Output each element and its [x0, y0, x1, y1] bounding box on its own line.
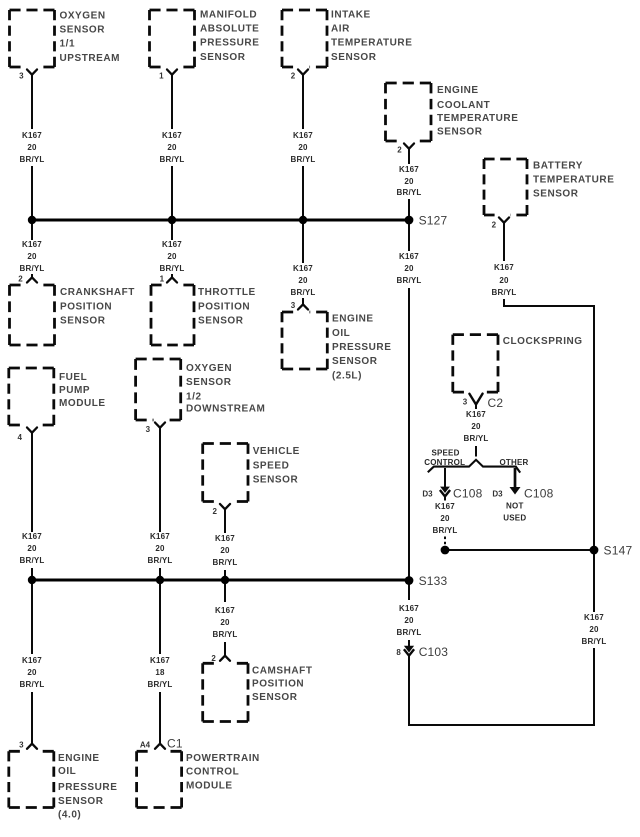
svg-text:UPSTREAM: UPSTREAM [60, 53, 121, 64]
svg-text:C108: C108 [453, 487, 483, 501]
svg-text:BR/YL: BR/YL [464, 434, 489, 443]
svg-text:20: 20 [167, 143, 177, 152]
svg-text:K167: K167 [22, 656, 42, 665]
svg-text:SENSOR: SENSOR [60, 25, 106, 36]
svg-text:PRESSURE: PRESSURE [58, 782, 117, 793]
svg-text:20: 20 [404, 177, 414, 186]
svg-text:BR/YL: BR/YL [397, 628, 422, 637]
svg-text:(2.5L): (2.5L) [332, 370, 362, 381]
svg-text:OIL: OIL [332, 328, 350, 339]
svg-text:BR/YL: BR/YL [213, 630, 238, 639]
svg-text:CONTROL: CONTROL [186, 767, 239, 778]
svg-text:POSITION: POSITION [60, 301, 112, 312]
svg-text:TEMPERATURE: TEMPERATURE [533, 174, 614, 185]
svg-text:ENGINE: ENGINE [332, 314, 374, 325]
svg-text:K167: K167 [162, 131, 182, 140]
svg-text:CLOCKSPRING: CLOCKSPRING [503, 336, 583, 347]
svg-text:C2: C2 [488, 396, 504, 410]
svg-text:20: 20 [499, 276, 509, 285]
svg-text:BR/YL: BR/YL [20, 264, 45, 273]
svg-text:K167: K167 [399, 165, 419, 174]
svg-text:SENSOR: SENSOR [198, 316, 244, 327]
svg-text:POSITION: POSITION [252, 679, 304, 690]
svg-text:K167: K167 [215, 534, 235, 543]
svg-text:SENSOR: SENSOR [253, 474, 299, 485]
svg-text:C108: C108 [524, 487, 554, 501]
svg-text:INTAKE: INTAKE [331, 10, 371, 21]
svg-text:S133: S133 [419, 574, 448, 588]
svg-text:D3: D3 [422, 490, 433, 499]
svg-text:K167: K167 [22, 240, 42, 249]
svg-text:K167: K167 [215, 606, 235, 615]
svg-text:SENSOR: SENSOR [58, 796, 104, 807]
svg-text:C1: C1 [167, 737, 183, 751]
svg-text:SPEED: SPEED [431, 449, 459, 458]
svg-text:BR/YL: BR/YL [160, 155, 185, 164]
svg-text:SENSOR: SENSOR [332, 356, 378, 367]
svg-text:2: 2 [492, 221, 497, 230]
svg-text:D3: D3 [492, 490, 503, 499]
svg-text:8: 8 [396, 648, 401, 657]
svg-text:2: 2 [212, 507, 217, 516]
svg-text:K167: K167 [293, 264, 313, 273]
svg-text:3: 3 [19, 72, 24, 81]
svg-text:K167: K167 [466, 410, 486, 419]
svg-text:K167: K167 [22, 532, 42, 541]
svg-text:20: 20 [404, 616, 414, 625]
svg-text:K167: K167 [399, 604, 419, 613]
svg-text:20: 20 [27, 544, 37, 553]
svg-text:SENSOR: SENSOR [186, 377, 232, 388]
svg-text:BR/YL: BR/YL [433, 526, 458, 535]
svg-text:OXYGEN: OXYGEN [186, 363, 232, 374]
svg-text:BR/YL: BR/YL [213, 558, 238, 567]
svg-text:POWERTRAIN: POWERTRAIN [186, 753, 260, 764]
svg-text:2: 2 [211, 654, 216, 663]
svg-text:PUMP: PUMP [59, 385, 90, 396]
svg-text:TEMPERATURE: TEMPERATURE [437, 113, 518, 124]
svg-text:COOLANT: COOLANT [437, 100, 490, 111]
svg-text:K167: K167 [150, 532, 170, 541]
svg-text:(4.0): (4.0) [58, 809, 81, 820]
svg-text:BR/YL: BR/YL [148, 556, 173, 565]
svg-text:1/2: 1/2 [186, 391, 202, 402]
svg-text:K167: K167 [162, 240, 182, 249]
svg-text:BATTERY: BATTERY [533, 161, 583, 172]
svg-text:20: 20 [220, 618, 230, 627]
svg-text:20: 20 [298, 276, 308, 285]
svg-text:MANIFOLD: MANIFOLD [200, 10, 257, 21]
svg-text:K167: K167 [494, 263, 514, 272]
svg-text:20: 20 [589, 625, 599, 634]
svg-text:S127: S127 [419, 214, 448, 228]
svg-text:SPEED: SPEED [253, 461, 290, 472]
svg-text:FUEL: FUEL [59, 372, 87, 383]
svg-text:20: 20 [27, 668, 37, 677]
svg-text:OXYGEN: OXYGEN [60, 11, 106, 22]
svg-text:1: 1 [159, 72, 164, 81]
svg-text:2: 2 [397, 146, 402, 155]
svg-text:MODULE: MODULE [186, 781, 233, 792]
svg-text:20: 20 [155, 544, 165, 553]
svg-text:3: 3 [146, 425, 151, 434]
svg-text:18: 18 [155, 668, 165, 677]
svg-text:K167: K167 [293, 131, 313, 140]
svg-text:ABSOLUTE: ABSOLUTE [200, 24, 259, 35]
svg-text:20: 20 [167, 252, 177, 261]
svg-text:BR/YL: BR/YL [397, 276, 422, 285]
svg-text:2: 2 [291, 72, 296, 81]
svg-text:SENSOR: SENSOR [200, 52, 246, 63]
svg-text:K167: K167 [22, 131, 42, 140]
svg-text:K167: K167 [399, 252, 419, 261]
svg-text:ENGINE: ENGINE [58, 753, 100, 764]
svg-text:CAMSHAFT: CAMSHAFT [252, 665, 313, 676]
svg-text:BR/YL: BR/YL [291, 288, 316, 297]
svg-text:K167: K167 [150, 656, 170, 665]
svg-text:DOWNSTREAM: DOWNSTREAM [186, 404, 265, 415]
svg-text:20: 20 [404, 264, 414, 273]
svg-text:20: 20 [27, 143, 37, 152]
svg-text:VEHICLE: VEHICLE [253, 446, 300, 457]
svg-text:BR/YL: BR/YL [148, 680, 173, 689]
svg-text:BR/YL: BR/YL [582, 637, 607, 646]
svg-text:BR/YL: BR/YL [492, 288, 517, 297]
svg-text:NOT: NOT [506, 502, 524, 511]
svg-text:K167: K167 [435, 502, 455, 511]
svg-text:SENSOR: SENSOR [252, 692, 298, 703]
svg-text:AIR: AIR [331, 24, 350, 35]
svg-text:20: 20 [27, 252, 37, 261]
svg-text:BR/YL: BR/YL [20, 680, 45, 689]
svg-text:4: 4 [17, 433, 22, 442]
svg-text:3: 3 [463, 398, 468, 407]
svg-text:20: 20 [471, 422, 481, 431]
svg-text:20: 20 [440, 514, 450, 523]
svg-text:OTHER: OTHER [500, 458, 529, 467]
svg-text:BR/YL: BR/YL [291, 155, 316, 164]
svg-text:20: 20 [298, 143, 308, 152]
svg-text:PRESSURE: PRESSURE [332, 342, 391, 353]
svg-text:BR/YL: BR/YL [397, 188, 422, 197]
svg-text:1/1: 1/1 [60, 39, 76, 50]
svg-text:CONTROL: CONTROL [424, 458, 465, 467]
svg-text:ENGINE: ENGINE [437, 85, 479, 96]
svg-text:3: 3 [19, 741, 24, 750]
svg-text:MODULE: MODULE [59, 398, 106, 409]
svg-text:3: 3 [291, 301, 296, 310]
svg-text:USED: USED [503, 514, 526, 523]
svg-text:THROTTLE: THROTTLE [198, 287, 256, 298]
svg-text:2: 2 [18, 275, 23, 284]
svg-text:BR/YL: BR/YL [20, 556, 45, 565]
svg-text:S147: S147 [604, 544, 633, 558]
svg-text:CRANKSHAFT: CRANKSHAFT [60, 287, 135, 298]
svg-text:POSITION: POSITION [198, 301, 250, 312]
svg-text:SENSOR: SENSOR [533, 189, 579, 200]
svg-text:TEMPERATURE: TEMPERATURE [331, 38, 412, 49]
svg-text:20: 20 [220, 546, 230, 555]
svg-text:A4: A4 [140, 741, 151, 750]
svg-text:SENSOR: SENSOR [60, 316, 106, 327]
svg-text:1: 1 [160, 275, 165, 284]
svg-text:BR/YL: BR/YL [20, 155, 45, 164]
svg-text:PRESSURE: PRESSURE [200, 38, 259, 49]
svg-text:OIL: OIL [58, 766, 76, 777]
svg-text:BR/YL: BR/YL [160, 264, 185, 273]
svg-text:K167: K167 [584, 613, 604, 622]
svg-text:SENSOR: SENSOR [331, 52, 377, 63]
svg-text:SENSOR: SENSOR [437, 127, 483, 138]
svg-text:C103: C103 [419, 645, 449, 659]
